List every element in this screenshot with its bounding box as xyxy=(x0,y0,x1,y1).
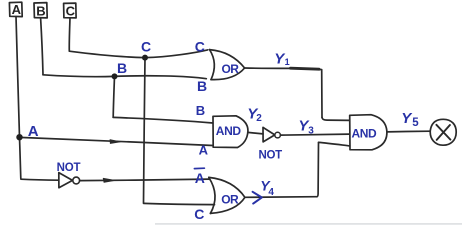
svg-text:1: 1 xyxy=(285,57,290,67)
wire NOT output (A-bar) to OR gate G4 xyxy=(80,179,210,181)
svg-text:4: 4 xyxy=(268,187,274,198)
svg-text:A: A xyxy=(12,2,22,17)
wire Y3 from T2 bubble to AND gate G3 xyxy=(280,134,349,135)
svg-text:NOT: NOT xyxy=(57,162,81,174)
wire Y2 from G2 output to NOT T2 xyxy=(248,132,263,134)
wire C stem from box C down xyxy=(68,18,71,51)
arrowhead on wire A xyxy=(110,140,120,144)
NOT gate T2 triangle xyxy=(263,127,275,141)
node A junction dot xyxy=(16,134,22,140)
OR gate G4 xyxy=(209,177,215,213)
svg-text:B: B xyxy=(36,4,45,19)
wire Y5 from G3 output to lamp X xyxy=(387,130,430,133)
AND gate G3 xyxy=(350,115,387,150)
svg-text:B: B xyxy=(197,78,207,94)
wire B stem from box B down xyxy=(41,18,43,75)
svg-text:B: B xyxy=(117,60,127,76)
wire B branch vertical down from node B xyxy=(113,76,114,117)
lamp X circle xyxy=(430,119,456,145)
wire Y1 into AND gate G3 top input xyxy=(322,117,350,120)
svg-text:A: A xyxy=(199,142,209,157)
paper edge shadow xyxy=(155,223,462,225)
input box A xyxy=(9,2,22,16)
wire Y4 corner vertical up xyxy=(317,142,319,196)
wire A horizontal to AND gate G2 xyxy=(20,137,213,145)
svg-text:C: C xyxy=(141,39,151,55)
svg-text:C: C xyxy=(194,206,204,222)
svg-text:OR: OR xyxy=(221,192,239,206)
arrowhead on wire Y4 xyxy=(253,192,262,204)
node B junction dot xyxy=(112,73,118,79)
wire A branch horizontal to NOT gate G5 xyxy=(21,179,59,180)
AND gate G2 xyxy=(213,116,248,148)
wire B horizontal to OR gate G1 xyxy=(43,75,206,79)
svg-text:2: 2 xyxy=(256,113,262,124)
svg-text:AND: AND xyxy=(352,126,378,140)
svg-text:AND: AND xyxy=(216,124,242,138)
wire A stem from box A down to node A xyxy=(16,17,20,137)
svg-text:A: A xyxy=(28,123,39,140)
lamp X cross xyxy=(436,125,450,140)
NOT gate G5 bubble xyxy=(73,177,80,184)
wire A branch vertical down from node A xyxy=(20,137,21,178)
wire C branch vertical down from node C xyxy=(144,58,146,203)
arrowhead on wire A-bar xyxy=(103,178,115,182)
svg-text:OR: OR xyxy=(222,62,240,76)
node C junction dot xyxy=(142,55,148,61)
wire Y1 overdrawn segment xyxy=(291,68,320,69)
input box C xyxy=(64,3,77,18)
NOT gate G5 triangle xyxy=(59,173,73,188)
wire Y4 from G4 output xyxy=(245,196,317,199)
svg-text:A: A xyxy=(195,170,205,186)
wire Y4 into AND gate G3 bottom input xyxy=(319,142,350,146)
wire Y1 corner down xyxy=(319,69,322,117)
svg-text:B: B xyxy=(196,103,205,118)
svg-text:C: C xyxy=(195,39,205,55)
wire C branch horizontal to OR gate G4 xyxy=(144,203,215,204)
svg-text:3: 3 xyxy=(308,126,314,137)
svg-text:5: 5 xyxy=(412,117,419,129)
wire Y1 from G1 output xyxy=(245,67,291,69)
svg-text:NOT: NOT xyxy=(259,150,283,162)
OR gate G1 xyxy=(210,50,215,80)
svg-text:C: C xyxy=(66,4,76,19)
wire C horizontal to OR gate G1 xyxy=(69,50,207,58)
NOT gate T2 bubble xyxy=(275,132,281,138)
input box B xyxy=(34,3,47,18)
wire B branch horizontal to AND gate G2 xyxy=(113,117,213,123)
